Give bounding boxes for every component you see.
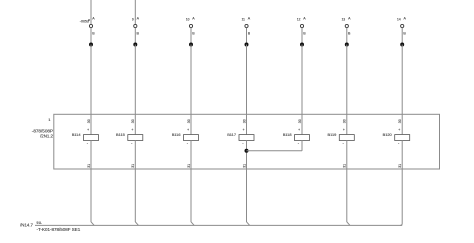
wire W7 from splice into box to sensor B120: [401, 45, 403, 135]
wire W7 from box to ground bus (corner elbow): [400, 169, 402, 225]
svg-text:31: 31: [343, 164, 347, 168]
wire W7 from connector to splice: [401, 28, 403, 45]
bus T-join kink column 3: [191, 222, 194, 226]
minus polarity mark B120: [398, 140, 400, 145]
plus polarity mark B120: [398, 128, 400, 132]
box bottom edge pin number column 3: [187, 164, 191, 168]
svg-text:14: 14: [397, 18, 401, 22]
minus polarity mark B119: [343, 140, 345, 145]
connector -X05d pin 12 labels (column 5): [297, 17, 306, 22]
connector -X05d socket contact (open circle) column 1: [89, 24, 92, 27]
wire W4 from connector to splice: [246, 28, 248, 45]
svg-text:B119: B119: [327, 132, 336, 137]
sensor B116 label: [172, 132, 181, 137]
svg-text:12: 12: [297, 18, 301, 22]
splice junction dot column 6: [345, 43, 349, 47]
sensor B120 body rectangle: [395, 135, 410, 141]
sensor B114 body rectangle: [84, 135, 99, 141]
connector -X05d socket contact (open circle) column 4: [245, 24, 248, 27]
splice junction dot column 3: [189, 43, 193, 47]
box top edge pin number column 2: [131, 119, 135, 123]
box top edge pin number column 3: [187, 119, 191, 123]
connector -X05d pin 9 labels (column 2): [132, 17, 140, 22]
sensor B117 body rectangle: [239, 135, 254, 141]
svg-text:31: 31: [187, 164, 191, 168]
svg-text:13: 13: [342, 18, 346, 22]
wire W2 from B115 minus to box bottom edge: [134, 140, 136, 169]
box top edge pin number column 1: [87, 119, 91, 123]
box bottom edge pin number column 7: [398, 164, 402, 168]
splice junction dot column 2: [133, 43, 137, 47]
wire W3 from splice into box to sensor B116: [190, 45, 192, 135]
svg-text:+: +: [187, 128, 189, 132]
net cross-reference /N14.7: [20, 223, 33, 228]
svg-text:/N14.7: /N14.7: [20, 223, 33, 228]
svg-text:30: 30: [131, 119, 135, 123]
svg-text:+: +: [131, 128, 133, 132]
box bottom edge pin number column 2: [131, 164, 135, 168]
svg-text:11: 11: [242, 18, 246, 22]
sensor B115 label: [116, 132, 125, 137]
box top edge pin number column 5: [298, 119, 302, 123]
wire W6 from box down to ground bus: [346, 169, 348, 222]
device box outline (harness/distributor box): [54, 114, 440, 169]
net name 91L: [37, 221, 43, 225]
sensor B120 label: [383, 132, 393, 137]
connector -X05d pin 8 labels (column 1): [80, 17, 96, 24]
svg-text:+: +: [343, 128, 345, 132]
box bottom edge pin number column 6: [343, 164, 347, 168]
splice junction dot column 1: [89, 43, 93, 47]
svg-text:B114: B114: [72, 132, 82, 137]
minus polarity mark B118: [298, 140, 300, 145]
bus T-join kink column 2: [135, 222, 138, 226]
svg-text:31: 31: [87, 164, 91, 168]
wire W2 from box down to ground bus: [134, 169, 136, 222]
svg-text:B116: B116: [172, 132, 181, 137]
plus polarity mark B115: [131, 128, 133, 132]
svg-text:B117: B117: [227, 132, 236, 137]
box interruption-point label 1: [48, 117, 51, 122]
splice junction dot column 5: [300, 43, 304, 47]
splice junction dot column 4: [245, 43, 249, 47]
sensor B117 label: [227, 132, 236, 137]
wire W6 from B119 minus to box bottom edge: [346, 140, 348, 169]
sensor B118 label: [283, 132, 292, 137]
bus T-join kink column 4: [247, 222, 250, 226]
connector -X05d pin 10 labels (column 3): [186, 17, 195, 22]
box top edge pin number column 6: [343, 119, 347, 123]
wire W4 from splice into box to sensor B117: [246, 45, 248, 135]
sensor B115 body rectangle: [128, 135, 143, 141]
connector -X05d socket contact (open circle) column 5: [300, 24, 303, 27]
wire W3 from B116 minus to box bottom edge: [190, 140, 192, 169]
svg-text:31: 31: [398, 164, 402, 168]
svg-text:10: 10: [186, 18, 190, 22]
minus polarity mark B114: [87, 140, 89, 145]
svg-text:30: 30: [242, 119, 246, 123]
svg-text:30: 30: [343, 119, 347, 123]
svg-text:B120: B120: [383, 132, 393, 137]
wire W4 from B117 minus to box bottom edge: [246, 140, 248, 169]
sensor B114 label: [72, 132, 82, 137]
box bottom edge pin number column 1: [87, 164, 91, 168]
wire W1 from connector to splice: [90, 28, 92, 45]
connector -X05d socket contact (open circle) column 3: [189, 24, 192, 27]
pin B label column 5: [303, 31, 306, 35]
box bottom edge pin number column 4: [242, 164, 246, 168]
wire W6 from connector to splice: [346, 28, 348, 45]
wire W5 from splice into box to sensor B118: [301, 45, 303, 135]
bus T-join kink column 6: [347, 222, 350, 226]
pin B label column 1: [92, 31, 95, 35]
connector -X05d socket contact (open circle) column 2: [134, 24, 137, 27]
wire W5 from connector to splice: [301, 28, 303, 45]
pin B label column 2: [137, 31, 140, 35]
pin B label column 3: [192, 31, 195, 35]
sensor B116 body rectangle: [184, 135, 199, 141]
wire W2 from splice into box to sensor B115: [134, 45, 136, 135]
svg-text:31: 31: [131, 164, 135, 168]
pin B label column 6: [348, 31, 351, 35]
wire W2 from connector to splice: [134, 28, 136, 45]
svg-text:+: +: [398, 128, 400, 132]
wire W7 from B120 minus to box bottom edge: [401, 140, 403, 169]
connector -X05d socket contact (open circle) column 6: [345, 24, 348, 27]
svg-text:+: +: [298, 128, 300, 132]
minus polarity mark B115: [131, 140, 133, 145]
box top edge pin number column 7: [398, 119, 402, 123]
svg-text:B115: B115: [116, 132, 125, 137]
jumper wire B117 minus to B118 minus: [247, 150, 303, 152]
splice junction dot column 7: [400, 43, 404, 47]
wire W1 from box down to ground bus: [90, 169, 92, 222]
net target -T-K01-878/508F SE1: [37, 227, 81, 232]
connector -X05d socket contact (open circle) column 7: [401, 24, 404, 27]
svg-text:30: 30: [298, 119, 302, 123]
box device tag -878/508P: [32, 128, 53, 133]
sensor B119 body rectangle: [339, 135, 354, 141]
junction dot node B117-minus / B118 jumper: [245, 149, 249, 153]
plus polarity mark B119: [343, 128, 345, 132]
wire W4 from box down to ground bus: [246, 169, 248, 222]
jumper riser at B118: [301, 140, 303, 150]
bus T-join kink column 1: [91, 222, 94, 226]
box top edge pin number column 4: [242, 119, 246, 123]
box cross-reference /2N1.2: [40, 134, 53, 139]
wire W5 from B118 minus down to jumper: [301, 140, 303, 150]
wire W3 from connector to splice: [190, 28, 192, 45]
pin B label column 4: [248, 31, 251, 35]
wire W1 from B114 minus to box bottom edge: [90, 140, 92, 169]
svg-text:-T-K01-878/508F SE1: -T-K01-878/508F SE1: [37, 227, 81, 232]
svg-text:B118: B118: [283, 132, 292, 137]
ground bus wire 91L: [35, 224, 402, 226]
svg-text:30: 30: [398, 119, 402, 123]
plus polarity mark B116: [187, 128, 189, 132]
wire W1 top stub to drawing edge: [90, 0, 92, 24]
wire W6 from splice into box to sensor B119: [346, 45, 348, 135]
connector -X05d pin 14 labels (column 7): [397, 17, 406, 22]
sensor B119 label: [327, 132, 336, 137]
wire W2 top stub to drawing edge: [134, 0, 136, 24]
minus polarity mark B117: [242, 140, 244, 145]
svg-text:91L: 91L: [37, 221, 43, 225]
svg-text:+: +: [243, 128, 245, 132]
svg-text:9: 9: [132, 18, 134, 22]
wire W1 from splice into box to sensor B114: [90, 45, 92, 135]
connector -X05d pin 11 labels (column 4): [242, 17, 251, 22]
plus polarity mark B118: [298, 128, 300, 132]
sensor B118 body rectangle: [295, 135, 310, 141]
svg-text:31: 31: [242, 164, 246, 168]
svg-text:30: 30: [87, 119, 91, 123]
pin B label column 7: [403, 31, 406, 35]
connector -X05d pin 13 labels (column 6): [342, 17, 351, 22]
svg-text:+: +: [87, 128, 89, 132]
plus polarity mark B117: [243, 128, 245, 132]
svg-text:30: 30: [187, 119, 191, 123]
svg-text:/2N1.2: /2N1.2: [40, 134, 53, 139]
plus polarity mark B114: [87, 128, 89, 132]
minus polarity mark B116: [187, 140, 189, 145]
wire W3 from box down to ground bus: [190, 169, 192, 222]
